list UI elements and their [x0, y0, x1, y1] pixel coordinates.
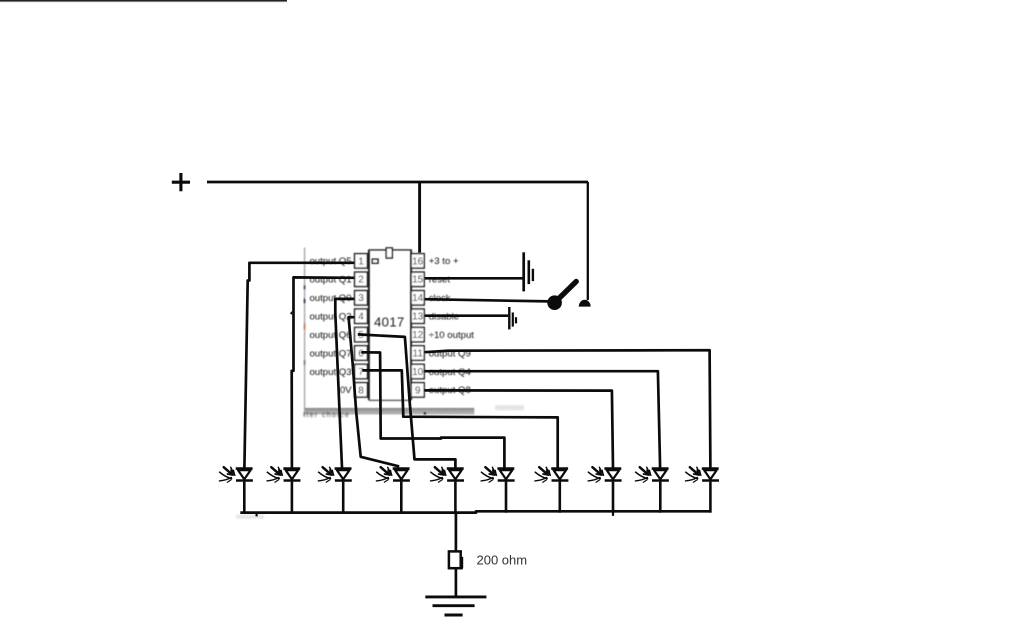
svg-text:÷10 output: ÷10 output — [429, 330, 475, 341]
svg-text:output Q6: output Q6 — [309, 330, 351, 341]
svg-text:1: 1 — [358, 256, 364, 267]
svg-text:tter choice: tter choice — [303, 410, 350, 419]
svg-text:output Q2: output Q2 — [309, 312, 351, 323]
svg-text:4017: 4017 — [374, 315, 405, 330]
svg-text:0V: 0V — [340, 385, 352, 396]
svg-text:6: 6 — [358, 348, 364, 359]
svg-text:8: 8 — [358, 385, 364, 396]
svg-text:4: 4 — [358, 312, 364, 323]
svg-text:output Q3: output Q3 — [309, 367, 351, 378]
svg-text:2: 2 — [358, 275, 364, 286]
svg-text:10: 10 — [412, 367, 424, 378]
svg-text:200 ohm: 200 ohm — [477, 552, 528, 567]
svg-text:reset: reset — [429, 275, 451, 286]
svg-text:16: 16 — [412, 256, 424, 267]
svg-text:9: 9 — [415, 385, 421, 396]
svg-text:11: 11 — [413, 348, 424, 359]
svg-text:15: 15 — [412, 275, 424, 286]
svg-text:+3 to +: +3 to + — [429, 256, 459, 267]
svg-text:13: 13 — [412, 312, 424, 323]
svg-text:3: 3 — [358, 293, 364, 304]
svg-text:14: 14 — [412, 293, 424, 304]
svg-text:output Q7: output Q7 — [309, 348, 351, 359]
svg-text:12: 12 — [412, 330, 424, 341]
svg-text:7: 7 — [358, 367, 364, 378]
